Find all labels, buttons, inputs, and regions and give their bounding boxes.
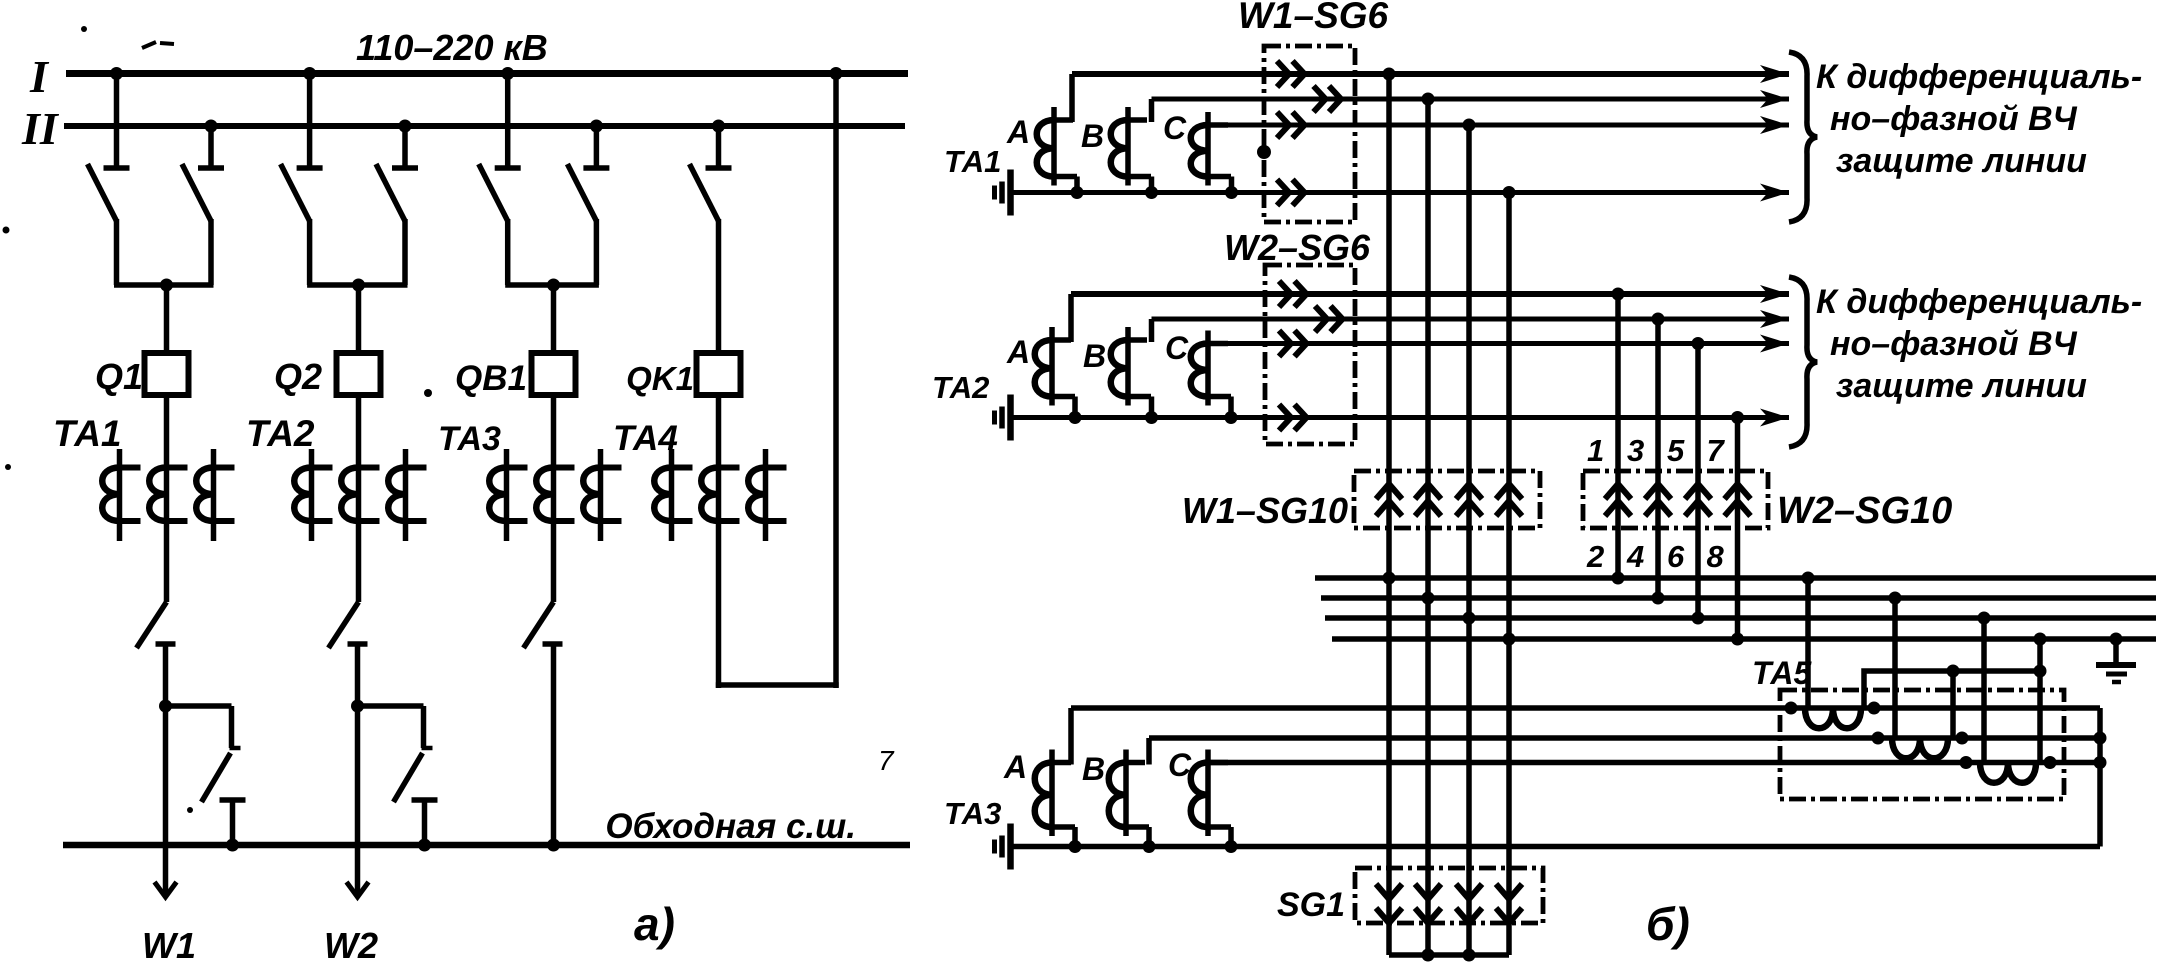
- wire coupler riser to bus I: [833, 74, 839, 689]
- winding TA1-A: [1037, 74, 1077, 193]
- terminal TA5-3 left: [1960, 756, 1973, 769]
- contact SG1 pole 3: [1456, 884, 1482, 923]
- junction v2 - panel wire 2: [1422, 592, 1435, 605]
- contact W2-SG6 phase B: [1315, 306, 1343, 332]
- panel wire 4: [1332, 636, 2156, 642]
- wire feeder3 to bypass bus: [551, 644, 557, 845]
- panel wire 1: [1315, 575, 2156, 581]
- junction panel wire4 - ground: [2110, 633, 2123, 646]
- svg-text:W2: W2: [324, 925, 378, 966]
- CT TA3 phase A: [489, 449, 527, 541]
- junction v4 - TA1 wire: [1503, 186, 1516, 199]
- contact W1-SG6 phase B: [1314, 86, 1342, 112]
- arrow TA1-A to protection: [1760, 65, 1789, 83]
- wire TA2-C: [1208, 341, 1789, 346]
- contact W1-SG10 pole 1: [1376, 484, 1402, 516]
- terminal TA5-2 left: [1872, 732, 1885, 745]
- contact W2-SG10 pole 4: [1725, 484, 1751, 516]
- bypass busbar (Obkhodnaya s.sh.): [63, 842, 910, 849]
- junction feeder2 bypass tap: [351, 700, 364, 713]
- wire link D bus4-TA5: [2037, 639, 2043, 763]
- winding TA5-3: [1980, 763, 2036, 783]
- junction v1 - panel wire 1: [1383, 572, 1396, 585]
- svg-text:б): б): [1646, 898, 1690, 950]
- svg-text:110–220 кВ: 110–220 кВ: [356, 27, 548, 68]
- wire link v3 from TA1 to SG1: [1466, 125, 1472, 955]
- arrow line W2: [347, 882, 369, 897]
- speck above bus I: [142, 42, 174, 48]
- junction loop - wire B: [2094, 732, 2107, 745]
- wire QK1 to TA4: [716, 395, 722, 449]
- speck left edge 1: [3, 227, 10, 234]
- CT TA1 phase A: [102, 449, 140, 541]
- junction loop - wire C: [2094, 756, 2107, 769]
- wire feeder1 below disconnector: [163, 644, 169, 706]
- winding TA2-A: [1035, 294, 1075, 418]
- contact SG1 pole 2: [1415, 884, 1441, 923]
- panel wire 2: [1321, 595, 2156, 601]
- wire TA2-A: [1071, 291, 1789, 297]
- wire disconnector to breaker QK1: [716, 219, 722, 353]
- junction feeder3 - bus I: [501, 67, 514, 80]
- wire coupler bottom: [716, 682, 839, 688]
- svg-text:но–фазной ВЧ: но–фазной ВЧ: [1830, 100, 2078, 138]
- svg-text:Q2: Q2: [274, 356, 322, 397]
- wire TA1-B: [1152, 97, 1790, 102]
- junction panel wire2 - TA5 link B: [1889, 592, 1902, 605]
- junction jumper - link D: [2034, 665, 2047, 678]
- wire TA1 neutral: [1011, 190, 1790, 195]
- arrow TA2-B to protection: [1760, 310, 1789, 328]
- contact W1-SG10 pole 3: [1456, 484, 1482, 516]
- contact SG1 pole 1: [1376, 884, 1402, 923]
- svg-text:С: С: [1163, 110, 1187, 146]
- junction u1 - TA2 wire: [1612, 288, 1625, 301]
- junction v4 - panel wire 4: [1503, 633, 1516, 646]
- junction bypass1 - bypass bus: [226, 839, 239, 852]
- svg-text:ТА2: ТА2: [246, 413, 315, 454]
- line disconnector feeder1: [137, 602, 176, 648]
- contact W2-SG10 pole 2: [1645, 484, 1671, 516]
- CT TA2 phase B (feeder line): [341, 449, 379, 541]
- wire TA3 neutral return: [1011, 844, 2101, 850]
- svg-text:ТА3: ТА3: [944, 796, 1001, 831]
- winding TA2-B: [1111, 319, 1152, 418]
- wire TA2 neutral: [1011, 415, 1790, 420]
- test block W1-SG10: [1354, 471, 1540, 528]
- svg-text:7: 7: [878, 745, 895, 776]
- wire feeder1 to breaker Q1: [164, 285, 170, 353]
- contact W2-SG6 neutral: [1279, 405, 1307, 431]
- breaker Q2: [337, 353, 381, 395]
- svg-text:7: 7: [1707, 433, 1726, 468]
- arrow TA1-C to protection: [1760, 116, 1789, 134]
- winding TA5-1: [1805, 708, 1861, 728]
- svg-text:QB1: QB1: [455, 359, 527, 398]
- wire TA1 to line disconnector: [164, 541, 170, 602]
- junction TA1-C drop: [1225, 186, 1238, 199]
- junction u3 - TA2 wire: [1692, 337, 1705, 350]
- arrow TA2-A to protection: [1760, 285, 1789, 303]
- svg-text:А: А: [1006, 114, 1030, 150]
- brace protection 2: [1789, 277, 1817, 447]
- panel wire 3: [1325, 615, 2156, 621]
- winding TA5-2: [1892, 738, 1948, 758]
- speck top left: [81, 26, 87, 32]
- wire feeder2 to line W2: [355, 706, 361, 894]
- wire TA3-A to TA5: [1071, 705, 2100, 711]
- wire TA2 to line disconnector: [356, 541, 362, 602]
- winding TA3-C: [1191, 750, 1231, 847]
- disconnector feeder2 from bus I: [281, 74, 323, 286]
- blob on W1-SG6 edge: [1257, 145, 1271, 159]
- CT TA4 phase A: [654, 449, 692, 541]
- CT TA1 phase C: [196, 449, 234, 541]
- busbar II: [64, 123, 905, 129]
- svg-text:I: I: [29, 51, 50, 102]
- CT TA3 phase B (feeder line): [536, 449, 574, 541]
- wire link A bus1-TA5: [1805, 578, 1811, 708]
- disconnector feeder2 from bus II: [376, 126, 418, 285]
- wire TA3-B to TA5: [1149, 735, 2100, 741]
- junction TA2-C drop: [1225, 411, 1238, 424]
- contact W1-SG6 phase A: [1277, 61, 1305, 87]
- svg-text:а): а): [634, 898, 675, 950]
- svg-text:QK1: QK1: [626, 360, 694, 397]
- wire link B bus2-TA5: [1892, 598, 1898, 738]
- disconnector feeder1 from bus I: [88, 74, 130, 286]
- terminal TA5-1 left: [1785, 702, 1798, 715]
- svg-text:ТА1: ТА1: [53, 413, 122, 454]
- speck left of QB1: [424, 389, 432, 397]
- line disconnector feeder2: [329, 602, 368, 648]
- wire TA1-A: [1072, 71, 1789, 77]
- bypass disconnector feeder1: [166, 706, 246, 845]
- wire QB1 to TA3: [551, 395, 557, 449]
- junction feeder1 - bus I: [110, 67, 123, 80]
- svg-text:ТА3: ТА3: [438, 420, 501, 458]
- junction TA1-B drop: [1145, 186, 1158, 199]
- ground TA2: [995, 395, 1011, 441]
- wire Q1 to TA1: [164, 395, 170, 449]
- disconnector feeder1 from bus II: [182, 126, 224, 285]
- svg-text:защите линии: защите линии: [1836, 367, 2087, 405]
- SG1 shorting bar: [1389, 952, 1509, 958]
- winding TA2-C: [1191, 331, 1231, 418]
- junction TA3-C drop: [1225, 840, 1238, 853]
- svg-text:II: II: [21, 103, 60, 154]
- svg-text:К дифференциаль-: К дифференциаль-: [1816, 283, 2142, 321]
- disconnector feeder3 from bus I: [479, 74, 521, 286]
- winding TA1-C: [1191, 112, 1232, 193]
- junction v1 - TA1 wire: [1383, 68, 1396, 81]
- junction feeder4 - bus II: [712, 120, 725, 133]
- svg-text:С: С: [1165, 330, 1189, 366]
- ground TA3: [995, 824, 1011, 870]
- svg-text:Q1: Q1: [95, 356, 143, 397]
- junction feeder3: [547, 279, 560, 292]
- CT TA4 phase B (feeder line): [701, 449, 739, 541]
- arrow TA1-N to protection: [1760, 184, 1789, 202]
- junction panel wire3 - TA5 link C: [1978, 612, 1991, 625]
- terminal TA5-1 right: [1868, 702, 1881, 715]
- svg-text:но–фазной ВЧ: но–фазной ВЧ: [1830, 325, 2078, 363]
- disconnector QK1 from bus II: [690, 126, 732, 221]
- wire link v2 from TA1 to SG1: [1425, 99, 1431, 955]
- svg-text:4: 4: [1626, 539, 1644, 574]
- junction u1 - panel wire 1: [1612, 572, 1625, 585]
- wire Q2 to TA2: [356, 395, 362, 449]
- wire link u4 from TA2 to panel wire: [1735, 418, 1741, 640]
- svg-text:В: В: [1081, 118, 1104, 154]
- busbar I (110-220 kV): [66, 70, 908, 77]
- svg-text:W2–SG6: W2–SG6: [1224, 227, 1371, 268]
- junction feeder1: [160, 279, 173, 292]
- svg-text:6: 6: [1667, 539, 1685, 574]
- junction TA1-A drop: [1071, 186, 1084, 199]
- bypass disconnector feeder2: [358, 706, 438, 845]
- junction u4 - panel wire 4: [1731, 633, 1744, 646]
- jumper TA5: [1864, 671, 2040, 708]
- winding TA3-A: [1035, 708, 1075, 847]
- junction TA2-A drop: [1069, 411, 1082, 424]
- junction u4 - TA2 wire: [1731, 411, 1744, 424]
- wire TA1-C: [1208, 123, 1789, 128]
- svg-text:ТА4: ТА4: [613, 419, 678, 458]
- junction TA2-B drop: [1145, 411, 1158, 424]
- test block W1-SG6: [1264, 46, 1355, 222]
- breaker QK1: [697, 353, 741, 395]
- junction feeder3 - bus II: [590, 120, 603, 133]
- svg-text:А: А: [1006, 334, 1030, 370]
- winding TA1-B: [1111, 99, 1152, 193]
- arrow TA1-B to protection: [1760, 90, 1789, 108]
- ground TA1: [995, 170, 1011, 216]
- wire link u3 from TA2 to panel wire: [1695, 344, 1701, 619]
- contact W2-SG6 phase A: [1279, 281, 1307, 307]
- wire feeder1 to line W1: [163, 706, 169, 894]
- wire TA3 to line disconnector: [551, 541, 557, 602]
- junction u2 - panel wire 2: [1652, 592, 1665, 605]
- breaker Q1: [145, 353, 189, 395]
- svg-text:А: А: [1003, 749, 1027, 785]
- junction feeder2: [352, 279, 365, 292]
- contact SG1 pole 4: [1496, 884, 1522, 923]
- junction feeder2 - bus II: [399, 120, 412, 133]
- svg-text:W1: W1: [142, 925, 196, 966]
- wire link v4 from TA1 to SG1: [1506, 193, 1512, 956]
- svg-text:1: 1: [1587, 433, 1604, 468]
- jumper leg to winding 2: [1950, 671, 1956, 738]
- junction coupler - bus I: [830, 67, 843, 80]
- junction SG1 bar 3: [1463, 949, 1476, 962]
- svg-text:В: В: [1082, 751, 1105, 787]
- wire joining feeder1 disconnectors: [114, 282, 214, 288]
- svg-text:Обходная с.ш.: Обходная с.ш.: [605, 807, 856, 846]
- junction u2 - TA2 wire: [1652, 313, 1665, 326]
- wire TA3-C to TA5: [1208, 760, 2100, 766]
- wire joining feeder3 disconnectors: [505, 282, 599, 288]
- wire link C bus3-TA5: [1981, 618, 1987, 763]
- terminal TA5-2 right: [1956, 732, 1969, 745]
- svg-text:2: 2: [1586, 539, 1604, 574]
- block TA5: [1780, 690, 2064, 799]
- junction v3 - panel wire 3: [1463, 612, 1476, 625]
- line disconnector feeder3: [524, 602, 563, 648]
- CT TA2 phase C: [388, 449, 426, 541]
- arrow line W1: [155, 882, 177, 897]
- ground right: [2096, 639, 2136, 682]
- wire TA5 right loop: [2097, 708, 2103, 847]
- contact W2-SG6 phase C: [1279, 331, 1307, 357]
- contact W2-SG10 pole 1: [1605, 484, 1631, 516]
- junction v3 - TA1 wire: [1463, 119, 1476, 132]
- disconnector feeder3 from bus II: [567, 126, 609, 285]
- test block W2-SG6: [1265, 265, 1355, 444]
- contact W1-SG6 neutral: [1277, 180, 1305, 206]
- wire feeder2 below disconnector: [355, 644, 361, 706]
- wire link u1 from TA2 to panel wire: [1615, 294, 1621, 578]
- junction jumper leg: [1947, 665, 1960, 678]
- junction bypass2 - bypass bus: [418, 839, 431, 852]
- svg-text:защите линии: защите линии: [1836, 142, 2087, 180]
- brace protection 1: [1789, 52, 1817, 222]
- CT TA4 phase C: [748, 449, 786, 541]
- wire feeder3 to breaker QB1: [551, 285, 557, 353]
- wire TA4 down: [716, 541, 722, 688]
- arrow TA2-C to protection: [1760, 335, 1789, 353]
- contact W1-SG10 pole 2: [1415, 484, 1441, 516]
- junction SG1 bar 2: [1422, 949, 1435, 962]
- CT TA3 phase C: [583, 449, 621, 541]
- svg-text:3: 3: [1627, 433, 1644, 468]
- speck left edge 2: [5, 464, 11, 470]
- wire link v1 from TA1 to SG1: [1386, 74, 1392, 955]
- svg-text:ТА1: ТА1: [944, 144, 1001, 179]
- svg-text:W1–SG6: W1–SG6: [1238, 0, 1389, 36]
- svg-text:5: 5: [1667, 433, 1685, 468]
- junction feeder2 - bus I: [303, 67, 316, 80]
- svg-text:SG1: SG1: [1277, 886, 1345, 924]
- svg-text:К дифференциаль-: К дифференциаль-: [1816, 58, 2142, 96]
- test block SG1: [1355, 868, 1543, 923]
- wire TA2-B: [1152, 317, 1790, 322]
- arrow TA2-N to protection: [1760, 409, 1789, 427]
- winding TA3-B: [1109, 738, 1149, 847]
- contact W2-SG10 pole 3: [1685, 484, 1711, 516]
- svg-text:ТА2: ТА2: [932, 370, 989, 405]
- CT TA2 phase A: [294, 449, 332, 541]
- terminal TA5-3 right: [2044, 756, 2057, 769]
- test block W2-SG10: [1583, 471, 1768, 528]
- wire joining feeder2 disconnectors: [307, 282, 407, 288]
- junction feeder3 - bypass bus: [547, 839, 560, 852]
- junction u3 - panel wire 3: [1692, 612, 1705, 625]
- svg-text:ТА5: ТА5: [1752, 655, 1812, 691]
- svg-text:W2–SG10: W2–SG10: [1777, 490, 1952, 532]
- wire feeder2 to breaker Q2: [356, 285, 362, 353]
- junction panel wire1 - TA5 link A: [1802, 572, 1815, 585]
- wire link u2 from TA2 to panel wire: [1655, 319, 1661, 598]
- svg-text:В: В: [1083, 338, 1106, 374]
- junction panel wire4 - TA5 link D: [2034, 633, 2047, 646]
- junction feeder1 bypass tap: [159, 700, 172, 713]
- junction v2 - TA1 wire: [1422, 93, 1435, 106]
- contact W1-SG10 pole 4: [1496, 484, 1522, 516]
- breaker QB1: [532, 353, 576, 395]
- junction feeder1 - bus II: [205, 120, 218, 133]
- svg-text:W1–SG10: W1–SG10: [1182, 490, 1348, 531]
- contact W1-SG6 phase C: [1277, 112, 1305, 138]
- junction TA3-B drop: [1143, 840, 1156, 853]
- svg-text:8: 8: [1707, 539, 1725, 574]
- junction TA3-A drop: [1069, 840, 1082, 853]
- speck near W1 disco: [187, 807, 193, 813]
- CT TA1 phase B (feeder line): [149, 449, 187, 541]
